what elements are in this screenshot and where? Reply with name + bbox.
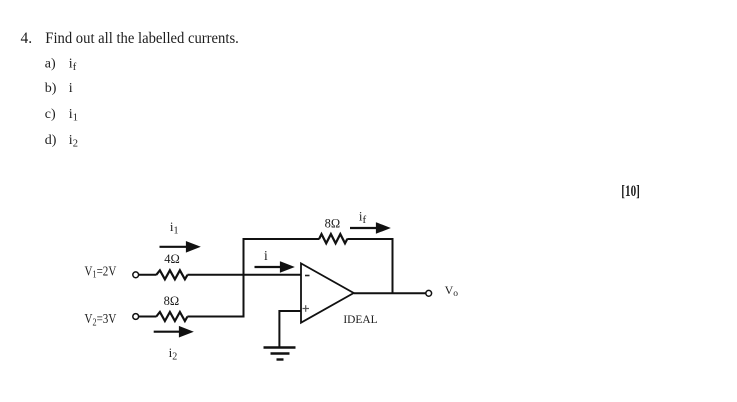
svg-text:if: if (69, 57, 77, 74)
svg-text:i: i (69, 81, 73, 96)
svg-text:i2: i2 (169, 345, 178, 363)
svg-text:b): b) (45, 81, 57, 96)
svg-text:Find out all the labelled curr: Find out all the labelled currents. (45, 30, 239, 47)
svg-text:d): d) (45, 133, 57, 148)
svg-text:8Ω: 8Ω (325, 216, 341, 230)
svg-text:4Ω: 4Ω (164, 252, 180, 266)
svg-text:V1=2V: V1=2V (85, 264, 117, 281)
svg-text:4.: 4. (21, 30, 33, 47)
svg-text:i2: i2 (69, 133, 78, 150)
svg-text:c): c) (45, 107, 56, 122)
svg-text:V2=3V: V2=3V (85, 311, 117, 328)
svg-text:if: if (359, 209, 367, 227)
svg-text:a): a) (45, 57, 56, 72)
svg-text:8Ω: 8Ω (164, 294, 180, 308)
svg-text:Vo: Vo (445, 283, 459, 299)
svg-text:i1: i1 (69, 107, 78, 124)
svg-text:i: i (264, 248, 268, 263)
svg-text:i1: i1 (170, 219, 179, 237)
svg-text:[10]: [10] (621, 183, 640, 200)
svg-text:IDEAL: IDEAL (343, 312, 377, 326)
